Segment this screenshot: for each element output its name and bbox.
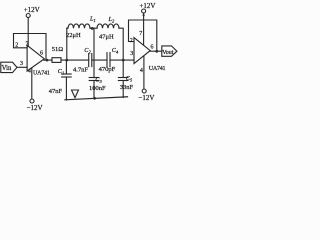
op-amp U1 UA741 — [27, 45, 44, 71]
svg-text:UA741: UA741 — [149, 66, 166, 72]
svg-text:6: 6 — [40, 51, 43, 57]
capacitor C5 plates — [118, 77, 128, 79]
wire U1 output to R1 — [44, 59, 52, 61]
svg-text:47nF: 47nF — [49, 88, 63, 95]
svg-text:UA741: UA741 — [33, 70, 50, 76]
svg-text:Vin: Vin — [2, 65, 12, 72]
inductor L2 47uH — [97, 24, 119, 28]
svg-text:+12V: +12V — [139, 2, 155, 10]
Vout port tag — [162, 46, 177, 56]
capacitor C1 47nF stem — [65, 60, 67, 74]
wire R1 to node A — [61, 59, 89, 61]
wire node C down to C5 — [122, 60, 124, 77]
svg-text:51Ω: 51Ω — [52, 46, 64, 53]
wire C1 to ground bus — [65, 77, 67, 100]
junction node A — [65, 59, 68, 62]
capacitor C2 plates — [88, 54, 90, 67]
svg-text:2: 2 — [130, 38, 133, 44]
wire +12V to pin7 U2 — [143, 13, 145, 45]
ground bus — [65, 97, 128, 100]
wire L1 to L2 — [90, 27, 97, 29]
svg-text:Vout: Vout — [162, 50, 174, 56]
wire Vin to pin3 U1 — [17, 66, 27, 68]
svg-text:100nF: 100nF — [89, 85, 106, 92]
terminal -12V left — [30, 99, 34, 103]
op-amp U2 UA741 — [134, 38, 150, 64]
wire +12V to pin7 U1 — [27, 18, 29, 47]
svg-text:+12V: +12V — [24, 6, 40, 14]
svg-text:3: 3 — [130, 51, 133, 57]
wire feedback loop U2 pin2 to pin6 — [129, 20, 157, 51]
capacitor C1 plates — [62, 73, 72, 75]
svg-text:−12V: −12V — [138, 94, 154, 102]
terminal +12V right — [142, 9, 146, 13]
wire C5 to ground bus — [122, 81, 124, 98]
wire U1 pin4 to -12V — [31, 68, 33, 99]
svg-text:47μH: 47μH — [99, 34, 114, 41]
junction node L1-L2 — [91, 27, 94, 30]
wire node A up to L1 — [66, 28, 68, 60]
wire L2 down to node C — [119, 28, 123, 60]
capacitor C3 plates — [89, 77, 99, 79]
capacitor C4 plates — [106, 53, 108, 67]
svg-text:2: 2 — [15, 42, 18, 48]
ground earth symbol — [72, 90, 79, 98]
svg-text:4.7nF: 4.7nF — [73, 66, 88, 73]
wire U2 output to Vout — [150, 50, 162, 52]
wire C4 to U2 pin3 — [110, 59, 134, 61]
svg-text:470pF: 470pF — [99, 66, 116, 73]
wire C2 to C4 — [92, 59, 107, 61]
svg-text:4: 4 — [28, 68, 31, 74]
svg-text:22μH: 22μH — [66, 32, 81, 39]
junction U2 output — [155, 50, 158, 53]
wire feedback loop U1 pin2 to pin6 — [14, 34, 47, 61]
wire node B vertical — [93, 28, 95, 77]
junction +12V right wire — [143, 14, 145, 16]
svg-text:7: 7 — [26, 41, 29, 47]
wire U2 pin4 to -12V — [143, 57, 145, 90]
inductor L1 22uH — [67, 24, 90, 28]
junction ground node — [93, 97, 96, 100]
svg-text:6: 6 — [151, 45, 154, 51]
svg-text:3: 3 — [20, 61, 23, 67]
wire C3 to ground bus — [93, 81, 95, 99]
terminal +12V left — [26, 14, 30, 18]
svg-text:−12V: −12V — [27, 104, 43, 112]
svg-text:33nF: 33nF — [120, 84, 134, 91]
junction node C — [122, 59, 125, 62]
resistor R1 51ohm — [52, 58, 61, 63]
Vin port tag — [1, 62, 17, 72]
svg-text:4: 4 — [140, 68, 143, 74]
terminal -12V right — [142, 89, 146, 93]
svg-text:7: 7 — [139, 31, 142, 37]
junction node U1 output — [46, 59, 49, 62]
